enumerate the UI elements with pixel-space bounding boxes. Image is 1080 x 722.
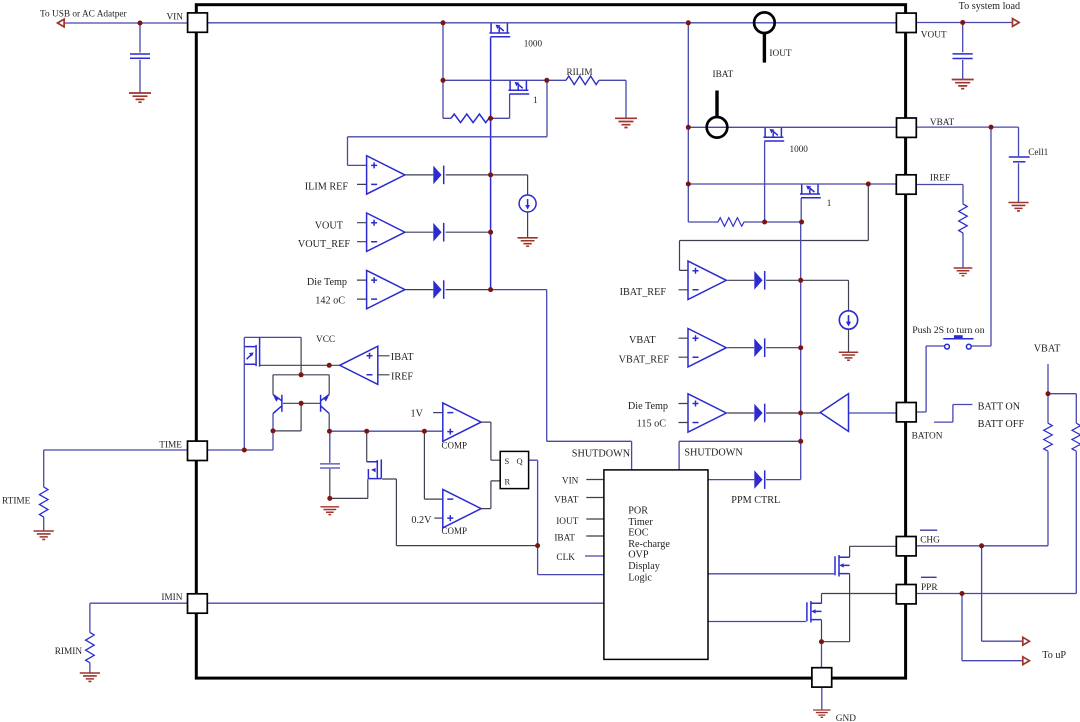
svg-text:IOUT: IOUT bbox=[769, 49, 792, 59]
svg-text:VOUT: VOUT bbox=[315, 221, 344, 232]
svg-text:To USB or AC Adatper: To USB or AC Adatper bbox=[40, 10, 128, 20]
svg-text:VOUT_REF: VOUT_REF bbox=[298, 239, 350, 250]
svg-text:Die Temp: Die Temp bbox=[628, 401, 668, 412]
svg-text:IOUT: IOUT bbox=[556, 517, 579, 527]
svg-text:VBAT: VBAT bbox=[554, 496, 579, 506]
svg-text:Push 2S to turn on: Push 2S to turn on bbox=[912, 325, 985, 336]
svg-text:IBAT: IBAT bbox=[391, 352, 414, 363]
svg-text:Re-charge: Re-charge bbox=[628, 539, 670, 550]
svg-text:RTIME: RTIME bbox=[2, 497, 31, 507]
svg-text:Cell1: Cell1 bbox=[1028, 148, 1048, 158]
svg-text:SHUTDOWN: SHUTDOWN bbox=[572, 449, 631, 460]
svg-text:Logic: Logic bbox=[628, 573, 652, 584]
svg-text:IBAT: IBAT bbox=[713, 70, 734, 80]
svg-text:SHUTDOWN: SHUTDOWN bbox=[684, 448, 743, 459]
svg-text:BATON: BATON bbox=[912, 432, 943, 442]
svg-text:VIN: VIN bbox=[562, 477, 579, 487]
svg-text:COMP: COMP bbox=[442, 526, 468, 536]
svg-text:IMIN: IMIN bbox=[161, 593, 182, 603]
svg-text:CLK: CLK bbox=[556, 553, 575, 563]
svg-text:1V: 1V bbox=[411, 409, 424, 420]
svg-text:TIME: TIME bbox=[159, 441, 182, 451]
svg-text:1: 1 bbox=[533, 95, 538, 105]
svg-text:1: 1 bbox=[827, 198, 832, 208]
svg-text:COMP: COMP bbox=[442, 441, 468, 451]
svg-text:PPR: PPR bbox=[921, 583, 938, 593]
svg-text:IREF: IREF bbox=[391, 372, 413, 383]
svg-text:142 oC: 142 oC bbox=[315, 296, 345, 307]
svg-text:VBAT: VBAT bbox=[1034, 344, 1061, 355]
svg-text:CHG: CHG bbox=[920, 536, 940, 546]
svg-text:S: S bbox=[505, 456, 510, 466]
svg-text:BATT OFF: BATT OFF bbox=[978, 419, 1025, 430]
svg-text:IREF: IREF bbox=[930, 174, 950, 184]
svg-text:R: R bbox=[505, 477, 511, 487]
svg-text:BATT ON: BATT ON bbox=[978, 402, 1021, 413]
svg-text:To system load: To system load bbox=[959, 1, 1021, 12]
svg-text:Timer: Timer bbox=[628, 517, 653, 528]
svg-text:VBAT: VBAT bbox=[629, 335, 656, 346]
svg-text:VCC: VCC bbox=[316, 335, 335, 345]
svg-text:IBAT_REF: IBAT_REF bbox=[620, 287, 667, 298]
svg-text:EOC: EOC bbox=[628, 528, 649, 539]
svg-text:VBAT_REF: VBAT_REF bbox=[619, 355, 670, 366]
svg-text:115 oC: 115 oC bbox=[637, 419, 667, 430]
svg-text:1000: 1000 bbox=[524, 39, 543, 49]
svg-text:Die Temp: Die Temp bbox=[307, 277, 347, 288]
svg-text:PPM CTRL: PPM CTRL bbox=[731, 495, 780, 506]
svg-text:IBAT: IBAT bbox=[554, 534, 575, 544]
svg-text:0.2V: 0.2V bbox=[411, 515, 432, 526]
svg-text:OVP: OVP bbox=[628, 550, 649, 561]
svg-text:RIMIN: RIMIN bbox=[55, 647, 83, 657]
svg-text:VBAT: VBAT bbox=[930, 118, 955, 128]
svg-text:To uP: To uP bbox=[1042, 650, 1066, 661]
svg-text:Q: Q bbox=[517, 456, 523, 466]
svg-text:1000: 1000 bbox=[790, 144, 809, 154]
svg-text:VIN: VIN bbox=[166, 13, 183, 23]
svg-text:RILIM: RILIM bbox=[567, 67, 593, 77]
svg-text:ILIM REF: ILIM REF bbox=[305, 182, 349, 193]
svg-text:VOUT: VOUT bbox=[921, 31, 947, 41]
svg-text:Display: Display bbox=[628, 561, 661, 572]
svg-text:POR: POR bbox=[628, 506, 648, 517]
svg-text:GND: GND bbox=[836, 714, 856, 722]
